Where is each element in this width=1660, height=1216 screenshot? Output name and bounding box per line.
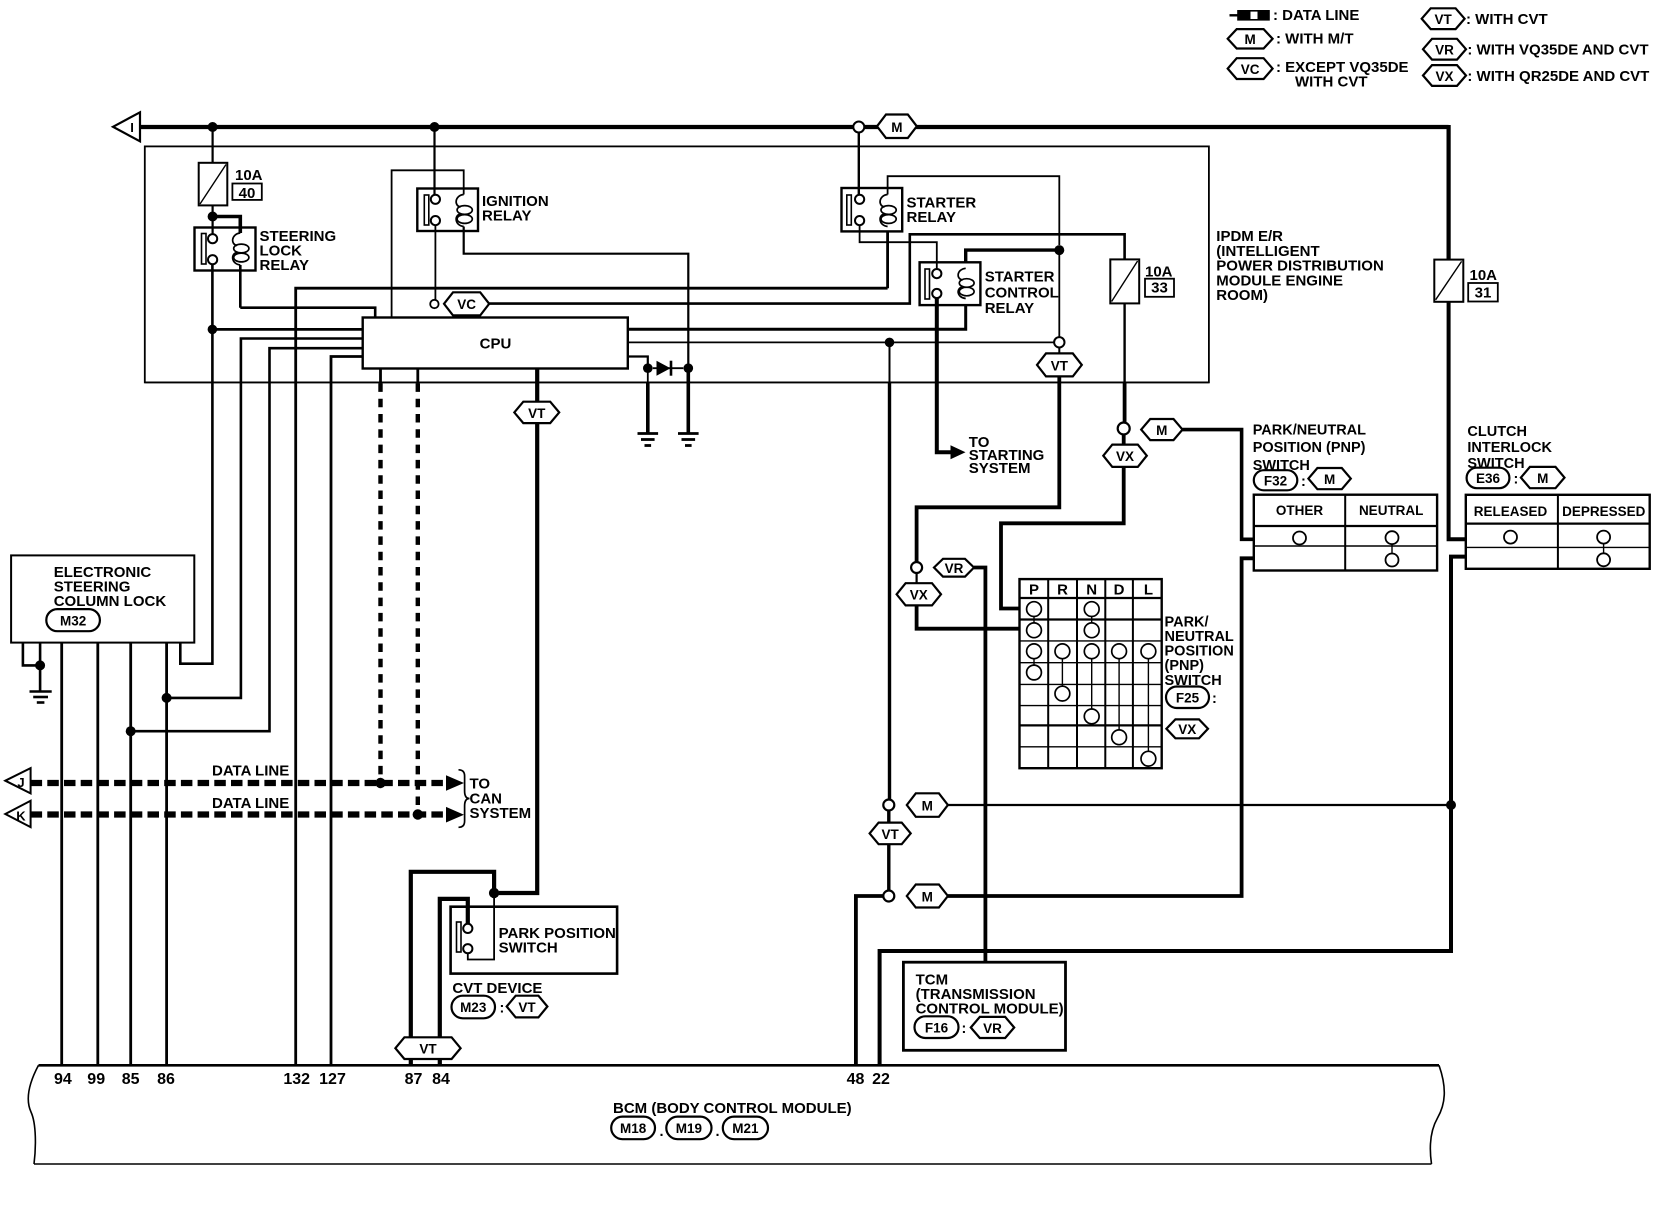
fuse 40 [199,163,228,206]
brace to CAN system [459,770,470,828]
svg-text:99: 99 [87,1071,105,1088]
node VR open circle [911,562,922,573]
variant tag M (F32) [1308,468,1350,489]
svg-text:PARK/NEUTRAL: PARK/NEUTRAL [1253,422,1366,438]
svg-text:M: M [922,889,933,904]
ignition relay contact pin bottom [431,216,440,225]
PNP grid column lines [1048,579,1133,768]
svg-text:N: N [1086,582,1097,599]
variant tag VT (starter control) [1037,353,1082,376]
PNP grid contact circles column D [1112,644,1127,659]
PNP grid contact circles column N [1084,602,1099,617]
wire CPU pin to ESCL (condition line) [167,339,363,698]
steering lock relay coil [233,233,241,265]
svg-text::: : [1212,691,1217,707]
CPU box [363,318,628,369]
svg-text:ROOM): ROOM) [1216,287,1268,304]
variant tag VT (at BCM pins 87 84) [395,1037,460,1059]
svg-text:PARK/: PARK/ [1165,614,1209,630]
M19 oval [666,1117,711,1140]
svg-text:F32: F32 [1264,473,1287,488]
svg-text::: : [962,1021,967,1037]
steering lock relay contact pin top [208,234,217,243]
svg-text:VX: VX [1435,69,1453,84]
svg-text:INTERLOCK: INTERLOCK [1467,440,1552,456]
steering lock relay box [195,228,256,271]
node M open circle (PNP feed) [1118,423,1130,435]
junction node on VT branch [885,338,895,348]
variant tag M (PNP row2 M/T) [907,885,948,908]
svg-text:VC: VC [457,297,476,312]
wire VT node into tag [1058,348,1060,354]
svg-text:33: 33 [1151,280,1168,297]
node VT open circle (starter cut) [1054,337,1064,347]
variant tag VR (F16) [971,1017,1014,1038]
data line K horizontal (dashed) [31,811,447,817]
ground symbol left [638,432,659,435]
wire ESCL to BCM pin 94 [60,643,63,1066]
wire bus right end to fuse 31 [1446,125,1450,260]
svg-text:.: . [716,1124,720,1140]
svg-text:CLUTCH: CLUTCH [1467,424,1527,440]
clutch contact circle RELEASED [1504,531,1517,544]
wire CPU to VT branch (starter control cut) [628,341,1060,343]
svg-text:CPU: CPU [480,336,512,353]
wire ESCL pin to ground junction [23,643,40,666]
svg-text:10A: 10A [1470,267,1498,284]
svg-text:: DATA LINE: : DATA LINE [1273,7,1359,24]
data line J horizontal (dashed) [31,780,447,786]
IPDM E/R enclosure box [145,146,1209,382]
wire M tag 2 to F32 row2 vertical [948,558,1254,896]
clutch table header line [1466,522,1650,524]
svg-text:CONTROL MODULE): CONTROL MODULE) [916,1001,1064,1018]
svg-text:R: R [1057,582,1068,599]
svg-text:M: M [1537,471,1548,486]
node VC open circle [430,300,438,308]
power supply bus wire [140,125,1449,129]
junction node park position switch [489,888,499,898]
wire diode anode to ground [647,368,649,382]
junction node pin86 branch [162,693,172,703]
park position switch box [451,907,617,974]
ignition relay coil [456,195,464,227]
wire CPU pin to BCM pin 127 [331,357,363,1066]
svg-text:L: L [1144,582,1153,599]
variant tag VT (M23) [507,996,548,1018]
fuse 31 label box [1468,283,1498,302]
wire bus to ignition relay contact [433,127,435,195]
junction node pin85 branch [126,726,136,736]
svg-text:F16: F16 [925,1021,949,1036]
wire junction to steering lock relay coil [213,217,241,234]
svg-text:VX: VX [910,588,928,603]
M21 oval [723,1117,768,1140]
legend tag VX [1423,65,1466,86]
ground symbol right [678,432,699,435]
svg-text:M: M [922,798,933,813]
ground symbol ESCL [30,690,52,693]
wire steering lock relay contact down [180,264,212,663]
F32 table frame [1254,495,1437,571]
starter relay box [842,188,903,231]
starter relay contact bar [847,195,852,225]
wire long vertical starter cut branch [889,342,891,382]
clutch interlock table frame [1466,495,1650,569]
svg-text:K: K [16,809,26,824]
svg-text:M32: M32 [60,614,86,629]
IPDM bottom edge (redrawn over) [145,381,1209,383]
wire junction to starter control relay coil [966,250,1060,262]
wire CPU data line J stub [379,369,382,384]
node M open circle (PNP line 2) [883,891,894,902]
junction node below fuse 40 [208,212,218,222]
svg-text:VR: VR [983,1021,1002,1036]
wire park switch junction west leg to pin 87 [411,872,494,1066]
wire CPU data line K stub [416,369,419,384]
PNP grid row lines [1020,598,1162,725]
wire starter relay coil top feed [888,176,1060,245]
ignition relay contact bar [424,195,429,225]
TCM box [903,962,1065,1050]
arrow J to CAN [446,775,464,791]
svg-text::: : [500,1001,505,1017]
wire M node through VT tag to M node 2 [887,811,890,891]
arrow to starting system [951,445,966,459]
arrow K to CAN [446,807,464,823]
wire CPU pin to ESCL lock signal [131,348,363,731]
diode D1 [653,367,684,369]
junction node diode anode [643,363,653,373]
wire VX tag to PNP grid row2 [917,605,1020,628]
PNP grid contact circles column R [1055,644,1070,659]
junction node J data line [375,778,385,788]
wire ignition relay coil to diode [464,227,689,365]
svg-text:VX: VX [1116,449,1134,464]
svg-text:VT: VT [1051,358,1069,373]
wire M tag to clutch interlock vertical [948,804,1451,806]
PNP grid contact circles column P [1027,602,1042,617]
svg-text:VC: VC [1241,62,1260,77]
legend tag VR [1423,39,1466,60]
wire M node 2 to BCM pin 48 [856,896,883,1065]
M32 oval [46,609,100,631]
variant tag VR [934,559,974,577]
svg-text:VT: VT [528,406,546,421]
svg-text:DATA LINE: DATA LINE [212,763,289,780]
F32 table divider [1344,495,1346,571]
PNP switch grid table frame [1020,579,1162,768]
data line J vertical (dashed) [378,383,382,778]
svg-text:E36: E36 [1476,471,1501,486]
svg-text:RELAY: RELAY [260,257,309,274]
wire starter relay coil to BCM pin 132 [296,231,888,1065]
clutch table divider [1557,495,1559,569]
svg-text:NEUTRAL: NEUTRAL [1359,503,1424,518]
PNP grid contact circles column L [1141,644,1156,659]
F32 contact circles NEUTRAL [1391,544,1393,554]
wire diode cathode to ground [686,368,690,433]
svg-text:SWITCH: SWITCH [1165,673,1222,689]
M18 oval [611,1117,655,1140]
node M open circle (clutch line) [883,800,894,811]
wire bus to fuse 40 [212,127,214,163]
svg-text:M: M [1324,472,1335,487]
wire park switch internal [468,893,494,960]
BCM strip top edge [39,1064,1440,1067]
junction node steering lock wire to CPU [208,325,218,335]
svg-text:BCM (BODY CONTROL MODULE): BCM (BODY CONTROL MODULE) [613,1100,852,1117]
variant tag M (PNP switch M/T) [1141,419,1182,440]
BCM strip right torn edge [1430,1065,1444,1164]
svg-text:RELAY: RELAY [907,209,956,226]
legend tag VT [1422,8,1465,29]
starter control relay box [920,262,981,305]
svg-text:RELAY: RELAY [482,208,531,225]
starter control relay contact pin bottom [932,289,941,298]
svg-text:COLUMN LOCK: COLUMN LOCK [54,593,167,610]
svg-text:M23: M23 [460,1000,487,1015]
wire steering lock relay coil to CPU [240,265,375,318]
wire CPU to starter control relay coil [628,305,966,329]
svg-text:CVT DEVICE: CVT DEVICE [452,980,542,997]
wire CPU to park position switch [499,369,537,894]
fuse 31 [1434,260,1463,302]
svg-text:22: 22 [872,1071,890,1088]
ESCL box [11,555,194,642]
svg-text:10A: 10A [235,167,263,184]
svg-text:VR: VR [1435,43,1454,58]
wire ESCL to BCM pin 85 [129,643,132,1066]
fuse 40 label box [232,184,261,200]
wire junction to steering lock relay contact [212,217,214,235]
F32 oval [1254,470,1298,490]
starter control relay contact bar [925,269,930,299]
svg-text:OTHER: OTHER [1276,503,1324,518]
svg-text:94: 94 [54,1071,72,1088]
variant tag M on bus [877,115,917,139]
F32 table row line [1254,545,1437,547]
wire M tag to F32 table row1 [1183,430,1254,540]
legend tag M [1228,29,1273,48]
BCM strip bottom edge [34,1163,1432,1165]
svg-text:10A: 10A [1145,264,1173,281]
E36 oval [1467,468,1510,489]
junction node open circle (starter relay tap, M/T) [853,122,864,133]
wire ignition relay contact to VC node [434,225,436,300]
junction node diode cathode [684,363,694,373]
fuse 33 [1110,259,1139,303]
starter relay contact pin bottom [855,216,864,225]
wire fuse 31 to clutch interlock switch row1 [1449,302,1466,539]
junction node M line right [1446,800,1456,810]
svg-text::: : [1514,472,1519,488]
svg-text:.: . [660,1124,664,1140]
connector I (to battery) [113,112,140,141]
svg-text:M: M [1156,423,1167,438]
legend data line sample [1230,14,1239,16]
variant tag M (E36) [1521,467,1565,488]
svg-text:RELEASED: RELEASED [1474,504,1548,519]
svg-text:86: 86 [157,1071,175,1088]
variant tag VT (CVT device line) [514,402,559,423]
svg-text:NEUTRAL: NEUTRAL [1165,629,1234,645]
wire VX branch to PNP grid row1 [1001,435,1124,609]
svg-text:M: M [1244,32,1255,47]
legend tag VC [1228,58,1273,79]
svg-text:SWITCH: SWITCH [499,940,558,957]
svg-text:SWITCH: SWITCH [1253,458,1310,474]
wire ESCL ground pin [39,643,42,692]
steering lock relay contact pin bottom [208,255,217,264]
wire VC line to fuse 33 [489,234,1124,303]
svg-text:VT: VT [518,1000,536,1015]
svg-text:D: D [1114,582,1125,599]
svg-text:132: 132 [283,1071,310,1088]
variant tag VT (below M clutch) [870,823,911,845]
wire VR node into VX tag [915,573,917,583]
wire starter relay contact to starter control relay contact [860,225,937,269]
wire starter control relay contact to starting system arrow [937,298,951,452]
svg-text:: WITH M/T: : WITH M/T [1276,31,1353,48]
svg-text:M21: M21 [732,1121,759,1136]
starter control relay contact pin top [932,269,941,278]
junction node ESCL ground [35,660,45,670]
wire clutch interlock row2 to BCM pin 22 [880,557,1466,1066]
svg-text:: WITH CVT: : WITH CVT [1466,11,1548,28]
svg-text:M19: M19 [676,1121,702,1136]
svg-text:84: 84 [432,1071,450,1088]
data line K vertical (dashed) [416,383,420,810]
wire park switch contact to pin 84 [440,899,468,1065]
park position switch pin bottom [463,944,472,953]
svg-text:POSITION: POSITION [1165,644,1234,660]
F32 table header line [1254,525,1437,527]
wire ESCL to BCM pin 99 [96,643,99,1066]
park position switch pin top [463,924,472,933]
svg-text:SYSTEM: SYSTEM [969,460,1031,477]
svg-text:F25: F25 [1176,691,1200,706]
svg-text:RELAY: RELAY [985,300,1034,317]
F16 oval [915,1016,959,1038]
connector J triangle [5,768,30,793]
wire junction to CPU pin [212,328,362,331]
svg-text:M: M [891,120,902,135]
connector K triangle [5,801,30,827]
svg-text:VR: VR [945,561,964,576]
F32 contact circle OTHER [1293,532,1306,545]
svg-text:CONTROL: CONTROL [985,285,1059,302]
svg-text:M18: M18 [620,1121,647,1136]
svg-text:STARTER: STARTER [985,269,1055,286]
svg-text:VX: VX [1178,722,1196,737]
variant tag VC [444,292,489,315]
svg-text:I: I [130,120,134,135]
starter relay contact pin top [855,195,864,204]
svg-text::: : [1301,474,1306,490]
ignition relay box [417,189,478,232]
wire bus to starter relay contact [858,133,860,195]
wire fuse 33 to M node [1123,303,1125,382]
starter relay coil [880,195,888,227]
svg-text:DEPRESSED: DEPRESSED [1562,504,1646,519]
svg-text:31: 31 [1475,285,1492,302]
svg-text:85: 85 [122,1071,140,1088]
svg-text:: WITH QR25DE AND CVT: : WITH QR25DE AND CVT [1467,68,1649,85]
junction node on bus (ignition relay tap) [430,122,440,132]
park position switch bar [457,922,462,952]
clutch contact circles DEPRESSED [1603,543,1605,554]
junction node on bus (fuse 40 tap) [208,122,218,132]
junction node K data line [413,809,423,819]
svg-text:40: 40 [239,185,256,202]
svg-text:(PNP): (PNP) [1165,658,1205,674]
svg-text:87: 87 [405,1071,423,1088]
steering lock relay contact bar [202,234,207,265]
wire fuse 40 to junction [212,205,214,216]
variant tag VX (F25) [1166,719,1208,738]
variant tag VX (below VR node) [897,583,941,605]
svg-text:POSITION (PNP): POSITION (PNP) [1253,440,1366,456]
ignition relay contact pin top [431,195,440,204]
wire VT tag down to VR node [917,376,1060,562]
variant tag VX (below M node) [1103,445,1147,467]
BCM strip left torn edge [28,1065,38,1164]
svg-text:VT: VT [1434,12,1452,27]
svg-text:P: P [1029,582,1039,599]
PNP grid connector lines [1034,609,1148,759]
svg-text:J: J [17,775,24,790]
svg-text:SYSTEM: SYSTEM [470,805,532,822]
variant tag M (clutch interlock M/T) [907,793,948,817]
svg-text:127: 127 [319,1071,346,1088]
clutch table row line [1466,546,1650,548]
svg-text:WITH CVT: WITH CVT [1295,74,1368,91]
wire ignition relay coil feed from CPU top [392,170,464,317]
wire VR tag to TCM [974,568,985,963]
svg-text:48: 48 [847,1071,865,1088]
wire junction down to VT circle [1058,250,1060,337]
svg-text:SWITCH: SWITCH [1467,456,1524,472]
starter control relay coil [958,268,966,298]
svg-text:VT: VT [881,827,899,842]
svg-text:: WITH VQ35DE AND CVT: : WITH VQ35DE AND CVT [1467,42,1648,59]
F25 oval [1166,687,1209,709]
junction node starter feed [1054,245,1064,255]
M23 oval [452,996,496,1019]
wire ESCL to BCM pin 86 [165,643,168,1066]
wire CPU to diode anode [628,357,648,365]
svg-text:VT: VT [419,1042,437,1057]
svg-text:DATA LINE: DATA LINE [212,795,289,812]
fuse 33 label box [1145,279,1174,297]
